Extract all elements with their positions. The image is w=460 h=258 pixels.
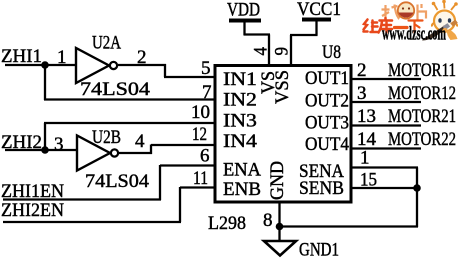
svg-text:OUT1: OUT1 xyxy=(305,68,349,89)
inverter U2B xyxy=(77,136,118,171)
wire xyxy=(244,33,271,35)
svg-text:10: 10 xyxy=(191,102,210,123)
red character KU xyxy=(379,18,393,33)
svg-text:2: 2 xyxy=(357,60,367,81)
wire xyxy=(350,78,421,80)
wire xyxy=(118,64,166,66)
wire xyxy=(164,64,166,77)
faint character PIAN xyxy=(418,4,427,20)
node junction GND xyxy=(276,223,284,231)
wire xyxy=(44,98,216,100)
mascot xyxy=(432,0,458,40)
wire xyxy=(179,187,181,222)
svg-text:MOTOR22: MOTOR22 xyxy=(388,129,456,150)
wire xyxy=(278,201,280,241)
svg-text:GND: GND xyxy=(267,161,288,200)
svg-text:74LS04: 74LS04 xyxy=(80,79,151,100)
wire xyxy=(268,35,270,67)
wire xyxy=(290,34,318,36)
svg-text:12: 12 xyxy=(192,124,207,145)
chip mascot circle xyxy=(398,2,414,18)
wire xyxy=(164,76,216,78)
svg-text:IN3: IN3 xyxy=(223,111,257,132)
power VDD xyxy=(227,0,261,21)
red character YI xyxy=(395,26,408,29)
wire xyxy=(151,144,216,146)
svg-text:3: 3 xyxy=(54,134,64,155)
wire xyxy=(3,221,181,223)
svg-text:www.dzsc.com: www.dzsc.com xyxy=(382,24,446,45)
svg-text:ENB: ENB xyxy=(223,179,261,200)
svg-text:ENA: ENA xyxy=(223,160,261,181)
svg-text:GND1: GND1 xyxy=(299,240,339,258)
node junction SEN xyxy=(413,184,421,192)
svg-text:8: 8 xyxy=(263,210,273,231)
node junction ZHI2 xyxy=(41,146,49,154)
faint character ZHAO xyxy=(382,5,401,20)
wire xyxy=(416,168,418,190)
wire xyxy=(5,149,78,151)
wire xyxy=(160,164,216,166)
svg-text:ZHI2EN: ZHI2EN xyxy=(1,200,64,221)
wire xyxy=(315,20,317,36)
ground GND1 symbol xyxy=(264,241,296,256)
wire xyxy=(350,101,421,103)
svg-text:1: 1 xyxy=(57,47,67,68)
wire xyxy=(279,225,418,227)
svg-text:13: 13 xyxy=(357,106,376,127)
svg-text:SENB: SENB xyxy=(299,178,344,199)
wire xyxy=(44,122,216,124)
wire xyxy=(416,188,418,227)
red character WEI xyxy=(364,20,378,33)
wire xyxy=(119,152,152,154)
svg-text:IN1: IN1 xyxy=(223,69,257,90)
svg-text:OUT3: OUT3 xyxy=(305,113,349,134)
svg-text:4: 4 xyxy=(251,47,272,56)
wire xyxy=(44,65,46,100)
svg-text:U2A: U2A xyxy=(92,33,121,54)
svg-text:VCC1: VCC1 xyxy=(297,0,341,20)
svg-text:VDD: VDD xyxy=(227,0,260,21)
svg-text:IN2: IN2 xyxy=(223,90,257,111)
svg-text:74LS04: 74LS04 xyxy=(85,171,150,192)
wire xyxy=(290,35,292,66)
wire xyxy=(350,166,418,168)
svg-text:MOTOR11: MOTOR11 xyxy=(388,60,456,81)
svg-text:6: 6 xyxy=(200,146,210,167)
svg-text:VSS: VSS xyxy=(272,70,293,104)
svg-text:15: 15 xyxy=(360,170,377,191)
wire xyxy=(3,198,161,200)
paint brush xyxy=(422,20,458,41)
svg-text:9: 9 xyxy=(272,47,293,56)
svg-text:4: 4 xyxy=(135,131,145,152)
wire xyxy=(44,123,46,150)
svg-text:5: 5 xyxy=(201,58,211,79)
svg-text:11: 11 xyxy=(193,168,208,189)
watermark dzsc logo xyxy=(364,0,458,44)
wire xyxy=(159,165,161,200)
wire xyxy=(243,21,245,36)
svg-text:MOTOR21: MOTOR21 xyxy=(388,106,456,127)
svg-text:MOTOR12: MOTOR12 xyxy=(388,83,456,104)
svg-text:OUT4: OUT4 xyxy=(305,134,349,155)
svg-text:1: 1 xyxy=(360,148,370,169)
svg-text:7: 7 xyxy=(202,82,212,103)
wire xyxy=(5,64,76,66)
wire xyxy=(350,147,421,149)
wire xyxy=(150,145,152,155)
svg-text:3: 3 xyxy=(357,83,367,104)
svg-text:U8: U8 xyxy=(322,42,341,63)
svg-text:L298: L298 xyxy=(208,213,246,234)
svg-text:OUT2: OUT2 xyxy=(305,91,349,112)
node junction ZHI1 xyxy=(41,61,49,69)
red character XIA xyxy=(409,21,423,33)
svg-text:U2B: U2B xyxy=(92,127,121,148)
wire xyxy=(350,124,421,126)
wire xyxy=(350,187,418,189)
IC U8 body xyxy=(215,66,351,203)
wire xyxy=(180,186,216,188)
svg-text:IN4: IN4 xyxy=(223,131,258,152)
inverter U2A xyxy=(76,48,117,83)
power VCC1 xyxy=(297,0,341,20)
